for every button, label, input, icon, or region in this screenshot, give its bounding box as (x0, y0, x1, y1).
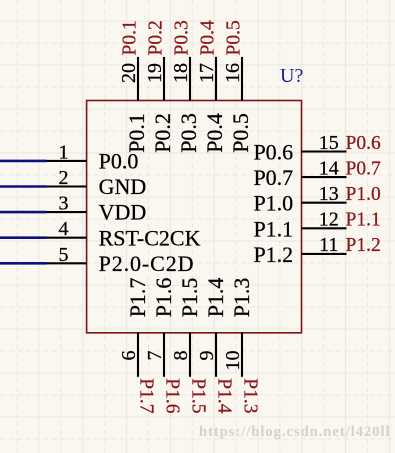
svg-text:P0.2: P0.2 (146, 20, 167, 55)
svg-text:15: 15 (319, 132, 339, 154)
svg-text:P1.1: P1.1 (253, 216, 293, 241)
svg-text:P0.3: P0.3 (176, 113, 201, 153)
wire net1 (0, 160, 47, 163)
svg-text:https://blog.csdn.net/l420ll: https://blog.csdn.net/l420ll (199, 424, 391, 440)
svg-text:P1.5: P1.5 (188, 378, 209, 413)
wire net3 (0, 211, 47, 214)
pin 19 P0.2 (top) (144, 20, 175, 153)
pin 20 P0.1 (top) (118, 20, 149, 153)
svg-text:8: 8 (170, 351, 192, 361)
pin 16 P0.5 (top) (222, 20, 253, 153)
svg-text:P1.7: P1.7 (125, 278, 150, 318)
pin 7 P1.6 (bottom) (144, 278, 183, 414)
svg-text:P0.4: P0.4 (198, 20, 219, 55)
svg-text:3: 3 (59, 193, 69, 215)
svg-text:6: 6 (118, 351, 140, 361)
svg-text:P0.5: P0.5 (224, 20, 245, 55)
pin 9 P1.4 (bottom) (196, 278, 235, 414)
pin 4 RST-C2CK (47, 218, 201, 250)
svg-text:P1.0: P1.0 (346, 184, 381, 205)
svg-text:P1.2: P1.2 (253, 242, 293, 267)
svg-text:GND: GND (99, 174, 147, 199)
pin 2 GND (47, 167, 147, 199)
svg-text:VDD: VDD (99, 200, 147, 225)
svg-text:P0.7: P0.7 (253, 165, 293, 190)
svg-text:13: 13 (319, 183, 339, 205)
svg-text:P1.2: P1.2 (346, 235, 381, 256)
svg-text:19: 19 (144, 63, 166, 83)
wire net4 (0, 236, 47, 239)
pin 3 VDD (47, 193, 147, 225)
pin 8 P1.5 (bottom) (170, 278, 209, 414)
svg-text:P0.1: P0.1 (120, 20, 141, 55)
svg-text:U?: U? (280, 65, 303, 87)
wire net5 (0, 262, 47, 265)
svg-text:1: 1 (59, 141, 69, 163)
svg-text:P1.6: P1.6 (151, 278, 176, 318)
pin 5 P2.0-C2D (47, 244, 195, 276)
pin 13 P1.0 (right) (253, 183, 380, 216)
svg-text:P0.7: P0.7 (346, 158, 381, 179)
pin 12 P1.1 (right) (253, 209, 380, 242)
svg-text:2: 2 (59, 167, 69, 189)
svg-text:P1.4: P1.4 (214, 378, 235, 413)
svg-text:14: 14 (319, 157, 339, 179)
svg-text:P0.6: P0.6 (346, 133, 381, 154)
pin 6 P1.7 (bottom) (118, 278, 157, 414)
svg-text:P0.3: P0.3 (172, 20, 193, 55)
svg-text:P0.4: P0.4 (202, 113, 227, 153)
svg-text:P0.6: P0.6 (253, 140, 293, 165)
component body U? (87, 101, 302, 333)
wire net2 (0, 185, 47, 188)
svg-text:7: 7 (144, 351, 166, 361)
pin 15 P0.6 (right) (253, 132, 381, 165)
pin 17 P0.4 (top) (196, 20, 227, 153)
svg-text:10: 10 (222, 351, 244, 371)
svg-text:9: 9 (196, 351, 218, 361)
svg-text:P1.7: P1.7 (136, 378, 157, 413)
pin 18 P0.3 (top) (170, 20, 201, 153)
svg-text:P2.0-C2D: P2.0-C2D (99, 251, 195, 276)
pin 10 P1.3 (bottom) (222, 278, 261, 414)
svg-text:P1.1: P1.1 (346, 210, 381, 231)
svg-text:P0.1: P0.1 (124, 113, 149, 153)
svg-text:11: 11 (319, 234, 338, 256)
svg-text:5: 5 (59, 244, 69, 266)
svg-text:P1.5: P1.5 (177, 278, 202, 318)
svg-text:12: 12 (319, 209, 339, 231)
pin 1 P0.0 (47, 141, 139, 173)
svg-text:RST-C2CK: RST-C2CK (99, 225, 201, 250)
svg-text:P0.5: P0.5 (228, 113, 253, 153)
pin 14 P0.7 (right) (253, 157, 381, 190)
svg-text:4: 4 (59, 218, 69, 240)
svg-text:P1.4: P1.4 (203, 278, 228, 318)
svg-text:20: 20 (118, 63, 140, 83)
svg-text:P1.3: P1.3 (240, 378, 261, 413)
svg-text:18: 18 (170, 63, 192, 83)
svg-text:P0.2: P0.2 (150, 113, 175, 153)
svg-text:P1.0: P1.0 (253, 191, 293, 216)
svg-text:17: 17 (196, 63, 218, 83)
pin 11 P1.2 (right) (253, 234, 380, 267)
svg-text:P1.6: P1.6 (162, 378, 183, 413)
svg-text:P1.3: P1.3 (229, 278, 254, 318)
svg-text:16: 16 (222, 63, 244, 83)
